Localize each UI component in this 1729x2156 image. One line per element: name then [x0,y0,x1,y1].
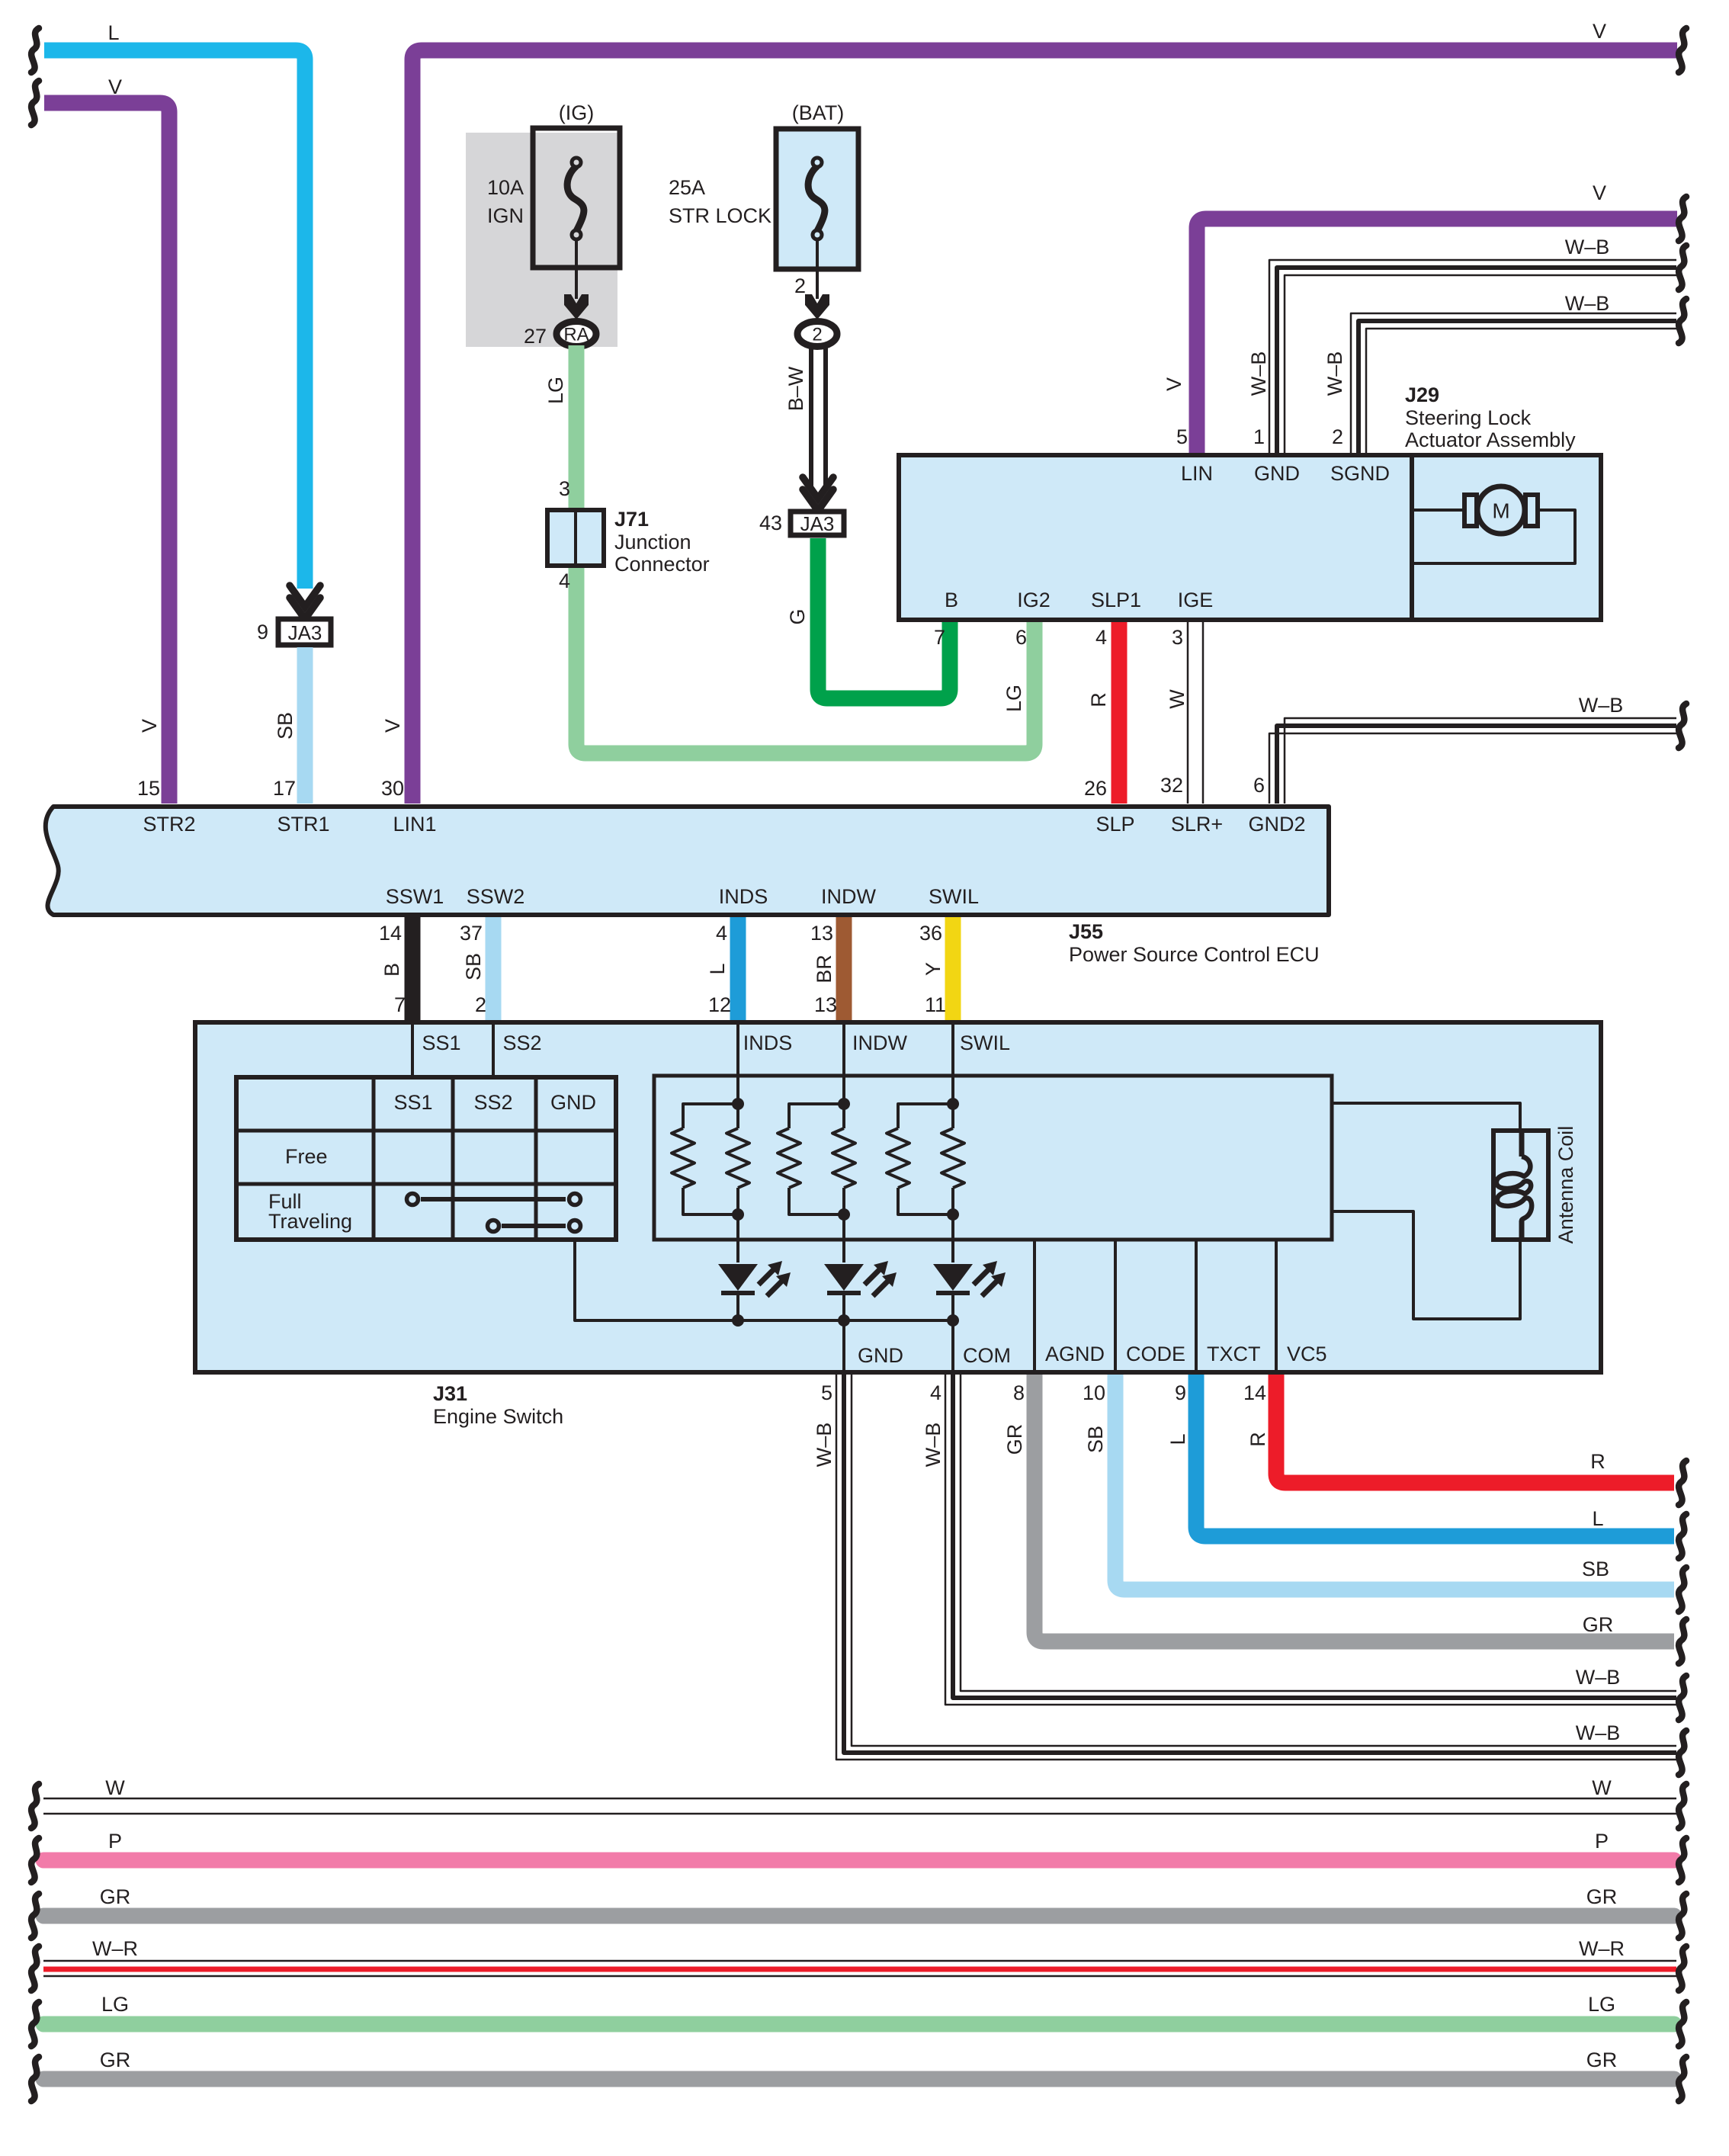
svg-text:36: 36 [919,922,942,945]
svg-text:B: B [380,963,403,977]
J31 SWIL channel: parallel resistors [887,1025,1010,1262]
svg-text:10A: 10A [487,176,524,199]
svg-text:W–B: W–B [1576,1721,1621,1744]
svg-text:GR: GR [1583,1613,1614,1636]
label 9 / junction JA3 (steering) with double chevron [257,586,331,645]
wire L from J55 pin 4 INDS to J31 pin 12 INDS [706,917,738,1020]
svg-text:Y: Y [922,962,945,976]
svg-text:L: L [1166,1433,1189,1445]
svg-text:13: 13 [814,993,837,1016]
svg-text:30: 30 [381,777,404,800]
wire V LIN from J29 pin 5 up and right to edge [1163,181,1686,453]
svg-text:(IG): (IG) [559,101,595,124]
svg-text:SS1: SS1 [422,1031,460,1054]
svg-text:BR: BR [813,954,836,983]
svg-text:L: L [706,963,729,974]
switch contact SS1-GND [407,1194,581,1205]
svg-text:P: P [1595,1830,1609,1853]
wire SB from J55 pin 37 SSW2 to J31 pin 2 SS2 [460,917,493,1020]
wire LG from RA via J71 to J29 pin 6 IG2 [544,345,1035,753]
J31 pin 5 GND lead [844,1320,903,1370]
svg-text:SLP: SLP [1095,813,1134,836]
J31 pin 14 VC5 lead [1276,1240,1327,1370]
svg-text:GR: GR [100,1885,131,1908]
svg-text:13: 13 [810,922,833,945]
motor M inside J29 [1412,486,1575,563]
svg-text:GR: GR [100,2049,131,2071]
svg-text:M: M [1492,499,1509,523]
svg-text:2: 2 [1332,425,1343,448]
svg-text:G: G [786,608,809,624]
svg-text:9: 9 [257,621,268,643]
antenna coil [1493,1126,1577,1244]
wire W-B from J29 pin 2 SGND up and right to edge [1323,292,1686,453]
svg-text:J71: J71 [614,508,649,531]
svg-text:IGN: IGN [487,204,524,227]
svg-text:2: 2 [812,325,822,345]
svg-text:INDS: INDS [719,885,768,908]
wire W-B from J55 pin 6 GND2 up and right to edge [1253,694,1686,804]
wire BR from J55 pin 13 INDW to J31 pin 13 INDW [810,917,844,1020]
svg-text:25A: 25A [669,176,705,199]
LED INDW [824,1261,897,1327]
svg-text:CODE: CODE [1126,1343,1185,1365]
J31 INDW channel: parallel resistors [778,1025,908,1262]
svg-text:RA: RA [563,325,589,345]
svg-text:GND: GND [1254,462,1300,485]
svg-text:Connector: Connector [614,553,710,576]
svg-text:Steering Lock: Steering Lock [1405,406,1532,429]
svg-text:SWIL: SWIL [929,885,979,908]
svg-text:SB: SB [274,712,297,740]
svg-text:L: L [107,21,119,44]
LED common rail to switch GND column [575,1240,953,1320]
svg-text:R: R [1246,1432,1269,1447]
svg-text:V: V [138,719,161,733]
bus wire LG [31,1993,1686,2046]
svg-text:B: B [945,589,958,611]
svg-text:STR LOCK: STR LOCK [669,204,771,227]
svg-text:V: V [1593,20,1606,43]
svg-text:6: 6 [1015,626,1027,649]
svg-text:Actuator Assembly: Actuator Assembly [1405,428,1576,451]
svg-text:8: 8 [1013,1381,1025,1404]
svg-text:17: 17 [273,777,296,800]
svg-text:LG: LG [1002,685,1025,712]
svg-text:L: L [1592,1507,1603,1530]
svg-text:GR: GR [1003,1424,1026,1455]
wire B-W from connector 2 to JA3 (43) [784,345,833,511]
svg-text:SB: SB [1084,1426,1107,1453]
resistor network box [654,1076,1332,1240]
svg-text:3: 3 [559,477,570,500]
svg-text:27: 27 [524,325,547,348]
wire W from J29 pin 3 IGE to J55 pin 32 SLR+ [1160,622,1203,804]
svg-text:STR1: STR1 [277,813,329,836]
svg-text:R: R [1087,692,1110,707]
svg-text:12: 12 [708,993,731,1016]
bus wire W [31,1776,1686,1828]
wire W-B from J29 pin 1 GND up and right to edge [1247,236,1686,453]
svg-text:SS2: SS2 [473,1091,512,1114]
svg-text:2: 2 [794,274,806,297]
bus wire W-R [31,1937,1686,1991]
svg-text:7: 7 [934,626,945,649]
LED INDS [718,1261,791,1327]
wire SB from J31 pin 10 CODE down and right to edge [1083,1375,1686,1612]
svg-text:Junction: Junction [614,531,691,553]
svg-text:J55: J55 [1069,920,1103,943]
J31 pin SS2 lead [493,1025,542,1077]
svg-text:7: 7 [394,993,406,1016]
J55 Power Source Control ECU box [46,807,1329,966]
svg-text:INDW: INDW [852,1031,907,1054]
svg-text:SB: SB [1582,1558,1609,1580]
svg-text:JA3: JA3 [800,512,835,535]
fuse 25A STR LOCK (BAT) [669,101,858,269]
wire GR from J31 pin 8 AGND down and right to edge [1003,1375,1686,1664]
grey fuse-block background [466,133,617,347]
connector 2 [797,322,837,347]
svg-text:W–B: W–B [1565,236,1610,258]
bus wire P [31,1830,1686,1882]
svg-text:V: V [1593,181,1606,204]
wire V (violet) LIN1 from J55 pin 30 up and right to edge [381,20,1686,804]
connector 27 RA [524,322,596,348]
svg-text:SSW2: SSW2 [467,885,525,908]
svg-text:IGE: IGE [1178,589,1214,611]
svg-text:1: 1 [1253,425,1265,448]
svg-text:W–R: W–R [1579,1937,1625,1960]
svg-text:GR: GR [1586,2049,1618,2071]
svg-text:W–B: W–B [1576,1666,1621,1689]
switch position table [236,1077,616,1240]
svg-text:W–B: W–B [813,1423,836,1468]
svg-text:W–R: W–R [92,1937,138,1960]
wire from IG fuse to connector RA [564,239,589,319]
J31 Engine Switch box [195,1022,1601,1428]
svg-text:W–B: W–B [1579,694,1624,717]
junction connector J71 [547,508,710,576]
J29 Steering Lock Actuator Assembly box [899,383,1601,620]
J31 pin SS1 lead [412,1025,461,1077]
wire W-B from J31 pin 5 GND down and right to edge [813,1375,1686,1775]
svg-text:3: 3 [1172,626,1183,649]
svg-text:5: 5 [821,1381,832,1404]
svg-text:10: 10 [1083,1381,1105,1404]
svg-text:14: 14 [379,922,402,945]
wire SB from JA3 to J55 pin 17 [273,647,305,804]
J31 pin 10 CODE lead [1115,1240,1185,1370]
svg-text:(BAT): (BAT) [792,101,845,124]
svg-text:2: 2 [475,993,486,1016]
svg-text:INDW: INDW [821,885,876,908]
LED SWIL [933,1261,1006,1327]
svg-text:SLP1: SLP1 [1091,589,1141,611]
svg-text:P: P [108,1830,122,1853]
svg-text:15: 15 [137,777,160,800]
svg-text:AGND: AGND [1045,1343,1105,1365]
antenna coil wiring [1332,1103,1520,1319]
svg-text:B–W: B–W [784,366,807,411]
svg-text:W–B: W–B [1323,351,1346,396]
svg-text:9: 9 [1175,1381,1186,1404]
svg-text:IG2: IG2 [1017,589,1051,611]
svg-text:V: V [1163,377,1185,391]
svg-text:V: V [108,75,122,98]
svg-text:SS2: SS2 [502,1031,541,1054]
bus wire GR 2 [31,2049,1686,2101]
svg-text:Free: Free [285,1145,328,1168]
svg-text:JA3: JA3 [288,621,322,644]
svg-text:VC5: VC5 [1287,1343,1327,1365]
svg-text:GND: GND [858,1344,903,1367]
svg-text:W: W [105,1776,125,1799]
svg-text:COM: COM [963,1344,1011,1367]
svg-text:W–B: W–B [1247,351,1270,396]
svg-text:J31: J31 [433,1382,467,1405]
svg-text:R: R [1590,1450,1606,1473]
junction JA3 (43) [759,512,844,535]
svg-text:TXCT: TXCT [1207,1343,1261,1365]
wire Y from J55 pin 36 SWIL to J31 pin 11 SWIL [919,917,953,1020]
svg-text:INDS: INDS [743,1031,793,1054]
svg-text:W: W [1592,1776,1612,1799]
svg-text:5: 5 [1176,425,1188,448]
svg-text:43: 43 [759,512,782,534]
svg-text:SB: SB [462,953,485,980]
wire R from J31 pin 14 VC5 down and right to edge [1243,1375,1686,1505]
wire G from JA3 (43) to J29 pin 7 B [786,538,950,698]
svg-text:LG: LG [1588,1993,1615,2016]
svg-text:LIN: LIN [1181,462,1213,485]
svg-text:6: 6 [1253,774,1265,797]
svg-text:W–B: W–B [1565,292,1610,315]
wire from BAT fuse to connector 2 [794,239,829,319]
svg-text:GR: GR [1586,1885,1618,1908]
wire B from J55 pin 14 SSW1 to J31 pin 7 SS1 [379,917,412,1020]
svg-text:Traveling: Traveling [268,1210,352,1233]
svg-text:Antenna Coil: Antenna Coil [1554,1126,1577,1244]
svg-text:J29: J29 [1405,383,1439,406]
wire W-B from J31 pin 4 COM down and right to edge [922,1375,1686,1720]
svg-text:4: 4 [1095,626,1107,649]
svg-text:LG: LG [101,1993,129,2016]
svg-text:STR2: STR2 [143,813,195,836]
svg-text:11: 11 [925,993,946,1016]
svg-text:Engine Switch: Engine Switch [433,1405,563,1428]
svg-text:GND: GND [550,1091,596,1114]
switch contact SS2-GND [488,1221,581,1232]
svg-text:37: 37 [460,922,483,945]
svg-text:SGND: SGND [1330,462,1390,485]
fuse 10A IGN (IG) [487,101,620,268]
wire L (blue) from connector brace to JA3 junction [31,21,305,589]
J31 INDS channel: parallel resistors [672,1025,792,1262]
svg-text:Power Source Control ECU: Power Source Control ECU [1069,943,1320,966]
svg-text:LG: LG [544,377,567,404]
svg-text:V: V [381,719,404,733]
svg-text:14: 14 [1243,1381,1266,1404]
J31 pin 4 COM lead [953,1320,1011,1370]
svg-text:W: W [1166,689,1188,709]
svg-text:SS1: SS1 [393,1091,432,1114]
bus wire GR [31,1885,1686,1938]
svg-text:26: 26 [1084,777,1107,800]
svg-text:4: 4 [559,569,570,592]
svg-text:32: 32 [1160,774,1183,797]
wire R from J29 pin 4 SLP1 to J55 pin 26 SLP [1084,622,1119,804]
svg-text:W–B: W–B [922,1423,945,1468]
svg-text:GND2: GND2 [1248,813,1305,836]
svg-text:SWIL: SWIL [960,1031,1010,1054]
wire V (violet) left to J55 pin 15 STR2 [31,75,169,804]
J31 pin 9 TXCT lead [1196,1240,1261,1370]
J31 pin 8 AGND lead [1035,1240,1105,1370]
svg-text:LIN1: LIN1 [393,813,436,836]
svg-text:4: 4 [716,922,727,945]
svg-text:SLR+: SLR+ [1171,813,1223,836]
svg-text:SSW1: SSW1 [386,885,444,908]
svg-text:4: 4 [930,1381,941,1404]
wire L from J31 pin 9 TXCT down and right to edge [1166,1375,1686,1558]
